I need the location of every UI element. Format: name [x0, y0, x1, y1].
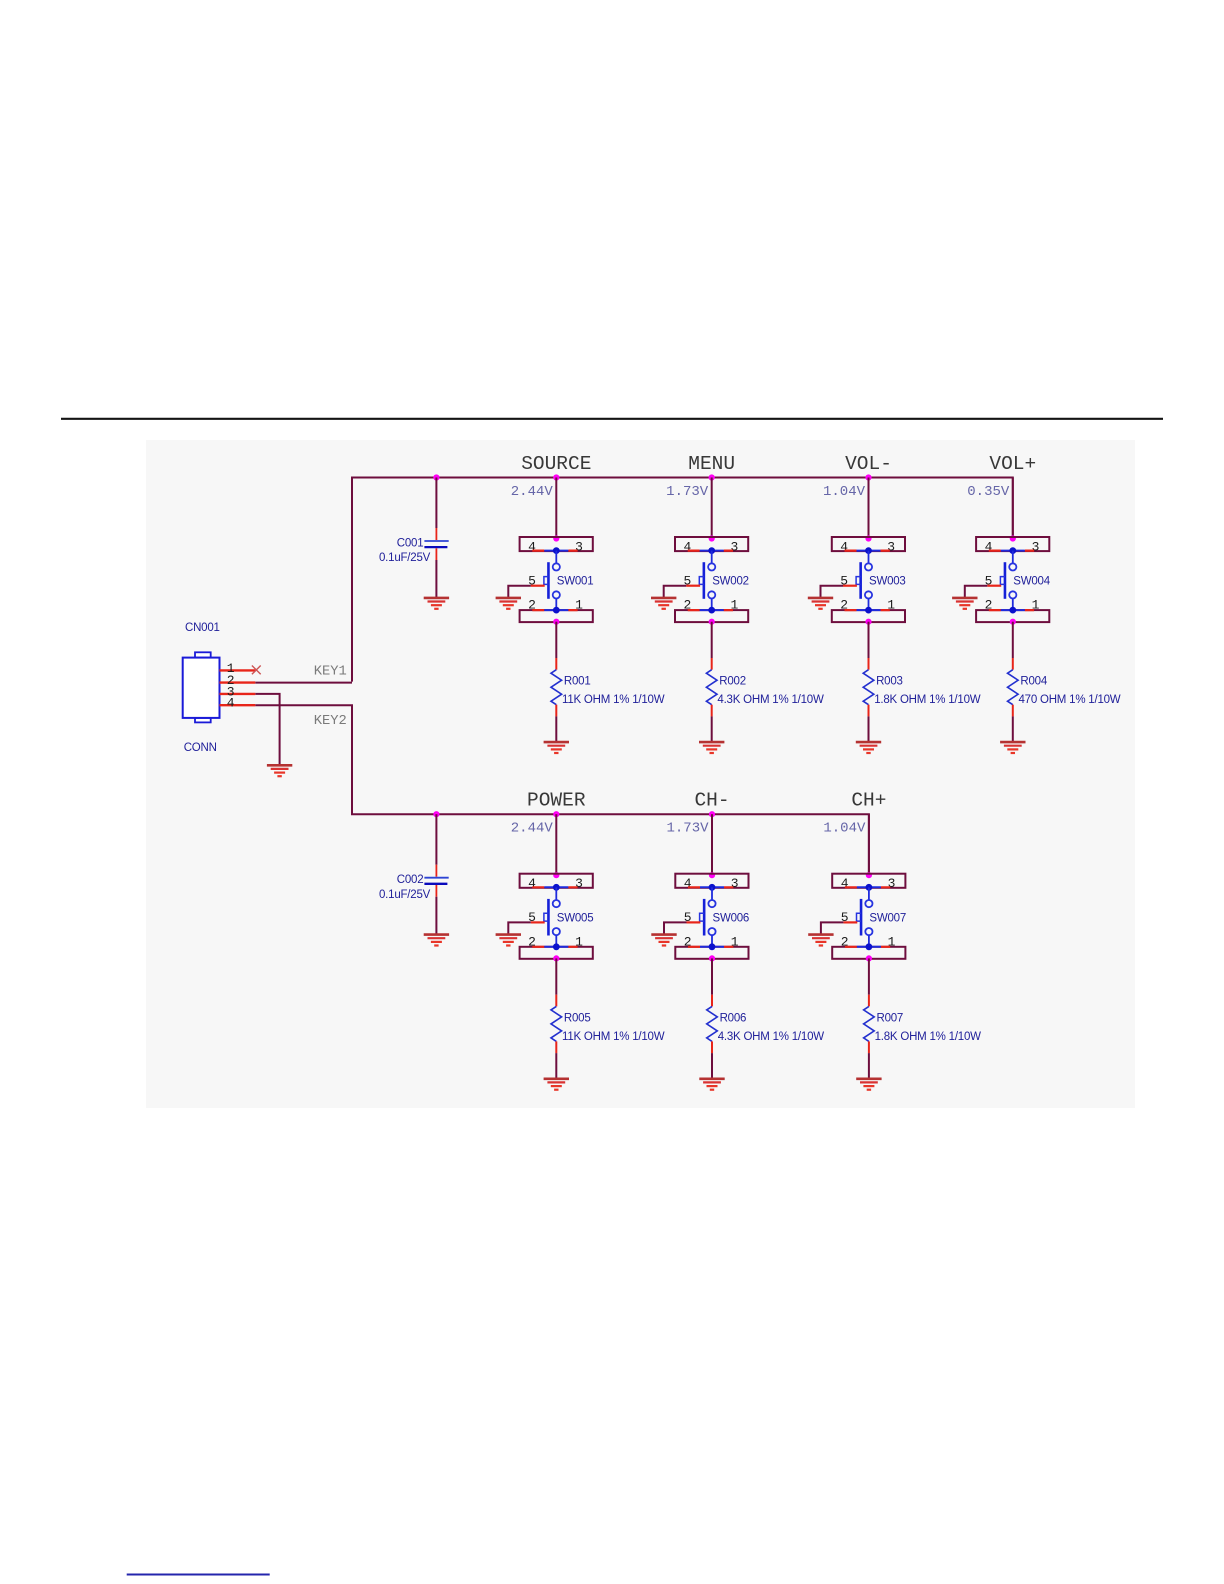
svg-text:SW003: SW003 — [869, 576, 906, 588]
svg-text:11K OHM 1% 1/10W: 11K OHM 1% 1/10W — [562, 694, 665, 706]
svg-text:1.73V: 1.73V — [666, 821, 709, 837]
svg-text:KEY1: KEY1 — [314, 664, 347, 679]
svg-text:SOURCE: SOURCE — [521, 453, 591, 475]
svg-text:SW002: SW002 — [712, 576, 749, 588]
svg-text:R004: R004 — [1020, 676, 1047, 688]
svg-text:1.8K OHM 1% 1/10W: 1.8K OHM 1% 1/10W — [875, 1031, 982, 1043]
svg-text:SW001: SW001 — [557, 576, 594, 588]
svg-text:CH+: CH+ — [851, 790, 886, 812]
svg-text:1.04V: 1.04V — [823, 821, 866, 837]
svg-text:C001: C001 — [397, 538, 424, 550]
svg-text:2.44V: 2.44V — [511, 484, 554, 500]
svg-text:1.8K OHM 1% 1/10W: 1.8K OHM 1% 1/10W — [874, 694, 981, 706]
svg-text:4.3K OHM 1% 1/10W: 4.3K OHM 1% 1/10W — [718, 1031, 825, 1043]
svg-text:CONN: CONN — [184, 742, 217, 754]
svg-text:KEY2: KEY2 — [314, 714, 347, 729]
svg-text:0.1uF/25V: 0.1uF/25V — [379, 889, 431, 901]
svg-text:470 OHM 1% 1/10W: 470 OHM 1% 1/10W — [1019, 694, 1121, 706]
svg-text:0.35V: 0.35V — [967, 484, 1010, 500]
svg-text:SW005: SW005 — [557, 912, 594, 924]
svg-text:SW006: SW006 — [713, 912, 750, 924]
svg-text:CH-: CH- — [694, 790, 729, 812]
svg-text:R007: R007 — [877, 1012, 904, 1024]
svg-text:R006: R006 — [720, 1012, 747, 1024]
svg-text:R002: R002 — [719, 676, 746, 688]
svg-text:VOL+: VOL+ — [989, 453, 1036, 475]
svg-text:4.3K OHM 1% 1/10W: 4.3K OHM 1% 1/10W — [717, 694, 824, 706]
svg-text:VOL-: VOL- — [845, 453, 892, 475]
svg-text:R005: R005 — [564, 1012, 591, 1024]
svg-text:11K OHM 1% 1/10W: 11K OHM 1% 1/10W — [562, 1031, 665, 1043]
svg-text:CN001: CN001 — [185, 622, 220, 634]
svg-text:R001: R001 — [564, 676, 591, 688]
svg-text:SW004: SW004 — [1013, 576, 1050, 588]
svg-text:1.73V: 1.73V — [666, 484, 709, 500]
svg-text:4: 4 — [227, 696, 235, 711]
svg-text:1.04V: 1.04V — [823, 484, 866, 500]
svg-text:MENU: MENU — [688, 453, 735, 475]
svg-text:SW007: SW007 — [869, 912, 906, 924]
svg-text:0.1uF/25V: 0.1uF/25V — [379, 552, 431, 564]
svg-text:R003: R003 — [876, 676, 903, 688]
svg-text:2.44V: 2.44V — [511, 821, 554, 837]
svg-text:C002: C002 — [397, 874, 424, 886]
svg-text:POWER: POWER — [527, 790, 586, 812]
